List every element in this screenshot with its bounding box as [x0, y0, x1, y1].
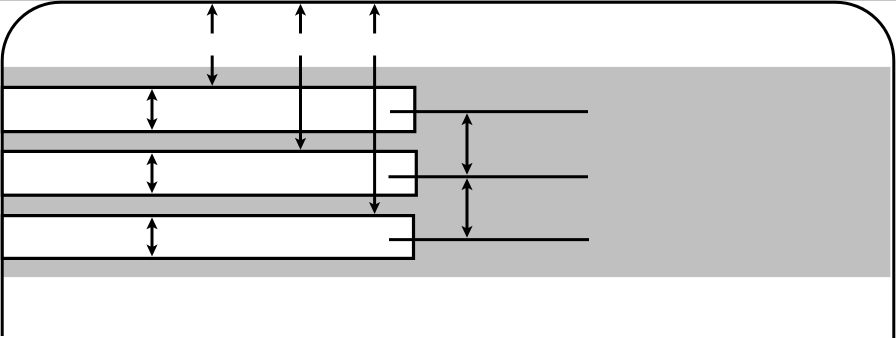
track 2 rectangle [2, 151, 416, 195]
dimension 1 up arrow (card top to track 1) [207, 4, 218, 34]
track 1 rectangle [2, 87, 415, 131]
track 1 pointer line [390, 110, 588, 113]
track 1 height double arrow [146, 89, 157, 130]
dimension 1 down arrow [207, 56, 218, 86]
spacing double arrow between pointer line 1 and line 2 [461, 113, 472, 175]
dimension 2 down arrow [295, 56, 306, 150]
track 2 pointer line [389, 175, 589, 178]
spacing double arrow between pointer line 2 and line 3 [461, 178, 472, 238]
track 3 rectangle [2, 216, 413, 259]
dimension 3 down arrow [369, 56, 380, 215]
track 3 pointer line [389, 238, 589, 241]
dimension 2 up arrow (card top to track 2) [295, 4, 306, 34]
dimension 3 up arrow (card top to track 3) [369, 4, 380, 34]
track 3 height double arrow [146, 217, 157, 256]
track 2 height double arrow [146, 153, 157, 193]
magnetic stripe band [2, 67, 890, 277]
top edge gray sliver [0, 0, 896, 2]
